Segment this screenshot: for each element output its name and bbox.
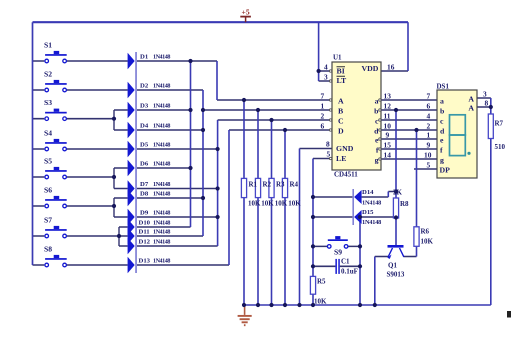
svg-text:S9013: S9013 [387, 271, 405, 279]
svg-text:e: e [375, 136, 379, 145]
svg-text:1N4148: 1N4148 [153, 104, 170, 110]
svg-text:16: 16 [387, 63, 395, 72]
svg-text:R7: R7 [495, 120, 504, 128]
svg-text:8: 8 [485, 99, 489, 108]
svg-text:9: 9 [386, 131, 390, 140]
svg-text:S9: S9 [334, 248, 342, 257]
svg-text:10K: 10K [261, 200, 274, 208]
svg-text:DP: DP [440, 166, 451, 175]
svg-text:1: 1 [427, 131, 431, 140]
svg-text:10K: 10K [288, 200, 301, 208]
svg-text:10K: 10K [275, 200, 288, 208]
svg-text:0.1uF: 0.1uF [341, 268, 358, 276]
svg-text:9: 9 [427, 141, 431, 150]
svg-text:4: 4 [324, 63, 328, 72]
svg-text:1N4148: 1N4148 [153, 182, 170, 188]
svg-text:DS1: DS1 [437, 83, 450, 91]
svg-text:R3: R3 [276, 181, 285, 189]
svg-text:1N4148: 1N4148 [153, 240, 170, 246]
svg-text:A: A [338, 97, 344, 106]
svg-text:1N4148: 1N4148 [153, 143, 170, 149]
svg-text:12: 12 [384, 102, 392, 111]
svg-text:D13: D13 [139, 258, 151, 265]
svg-text:D: D [338, 127, 344, 136]
svg-text:f: f [376, 146, 379, 155]
svg-text:S3: S3 [44, 98, 52, 107]
svg-text:D12: D12 [139, 239, 151, 246]
svg-text:7: 7 [321, 92, 325, 101]
svg-text:LE: LE [336, 154, 346, 163]
svg-text:10: 10 [384, 122, 392, 131]
svg-text:LT: LT [337, 76, 347, 85]
svg-text:S4: S4 [44, 129, 52, 138]
svg-text:R1: R1 [249, 181, 258, 189]
svg-text:D14: D14 [362, 189, 374, 196]
svg-text:D2: D2 [140, 83, 149, 90]
svg-text:GND: GND [336, 144, 354, 153]
svg-text:1N4148: 1N4148 [362, 200, 381, 207]
svg-text:2K: 2K [393, 189, 403, 197]
svg-text:S8: S8 [44, 245, 52, 254]
svg-text:B: B [338, 107, 343, 116]
svg-text:D8: D8 [140, 191, 149, 198]
svg-text:D7: D7 [140, 181, 149, 188]
svg-text:14: 14 [384, 151, 392, 160]
svg-text:R4: R4 [290, 181, 299, 189]
svg-text:1N4148: 1N4148 [153, 84, 170, 90]
svg-text:10K: 10K [314, 298, 327, 306]
svg-text:c: c [440, 117, 444, 126]
svg-text:R5: R5 [317, 278, 326, 286]
svg-text:R2: R2 [263, 181, 272, 189]
svg-text:5: 5 [427, 161, 431, 170]
svg-text:10K: 10K [421, 238, 434, 246]
svg-text:S6: S6 [44, 186, 52, 195]
svg-text:5: 5 [327, 150, 331, 159]
svg-text:1N4148: 1N4148 [153, 211, 170, 217]
svg-text:D1: D1 [140, 54, 148, 61]
svg-text:a: a [440, 97, 444, 106]
svg-text:1N4148: 1N4148 [153, 192, 170, 198]
svg-text:g: g [440, 156, 444, 165]
svg-text:D6: D6 [140, 161, 149, 168]
svg-text:1N4148: 1N4148 [153, 55, 170, 61]
svg-text:D11: D11 [139, 229, 150, 236]
svg-text:1N4148: 1N4148 [153, 124, 170, 130]
svg-text:S5: S5 [44, 157, 52, 166]
svg-text:1N4148: 1N4148 [153, 221, 170, 227]
svg-text:VDD: VDD [362, 64, 379, 73]
svg-text:D4: D4 [140, 123, 149, 130]
svg-text:b: b [440, 107, 445, 116]
svg-text:U1: U1 [333, 54, 342, 62]
svg-text:3: 3 [483, 90, 487, 99]
svg-text:+5: +5 [242, 7, 250, 16]
svg-text:1N4148: 1N4148 [153, 230, 170, 236]
svg-text:c: c [375, 117, 379, 126]
svg-text:510: 510 [495, 143, 506, 151]
svg-text:2: 2 [427, 122, 431, 131]
svg-text:7: 7 [427, 92, 431, 101]
svg-text:g: g [375, 156, 379, 165]
svg-text:e: e [440, 136, 444, 145]
svg-text:b: b [374, 107, 379, 116]
svg-text:D5: D5 [140, 142, 149, 149]
svg-text:11: 11 [384, 112, 391, 121]
svg-text:1N4148: 1N4148 [153, 259, 170, 265]
svg-text:2: 2 [321, 112, 325, 121]
svg-text:CD4511: CD4511 [334, 171, 358, 179]
svg-text:6: 6 [427, 102, 431, 111]
svg-text:d: d [440, 127, 445, 136]
svg-text:D9: D9 [140, 210, 149, 217]
svg-text:S7: S7 [44, 216, 52, 225]
svg-text:R8: R8 [400, 200, 409, 208]
svg-text:13: 13 [384, 92, 392, 101]
svg-text:Q1: Q1 [388, 262, 397, 270]
svg-text:f: f [440, 146, 443, 155]
svg-text:A: A [468, 104, 474, 113]
svg-text:a: a [375, 97, 379, 106]
svg-text:C: C [338, 117, 344, 126]
svg-text:D3: D3 [140, 103, 149, 110]
svg-text:10: 10 [424, 151, 432, 160]
svg-text:BI: BI [337, 67, 345, 76]
svg-text:D15: D15 [362, 209, 374, 216]
svg-text:4: 4 [427, 112, 431, 121]
svg-text:d: d [374, 127, 379, 136]
svg-text:S1: S1 [44, 41, 52, 50]
svg-text:C1: C1 [341, 258, 350, 266]
svg-text:8: 8 [326, 140, 330, 149]
svg-text:A: A [468, 95, 474, 104]
svg-text:1N4148: 1N4148 [362, 219, 381, 226]
svg-text:10K: 10K [248, 200, 261, 208]
svg-text:1: 1 [321, 102, 325, 111]
svg-text:S2: S2 [44, 70, 52, 79]
svg-text:3: 3 [324, 73, 328, 82]
svg-text:15: 15 [384, 141, 392, 150]
svg-text:D10: D10 [139, 220, 151, 227]
svg-text:6: 6 [321, 122, 325, 131]
svg-text:1N4148: 1N4148 [153, 162, 170, 168]
svg-text:R6: R6 [421, 228, 430, 236]
